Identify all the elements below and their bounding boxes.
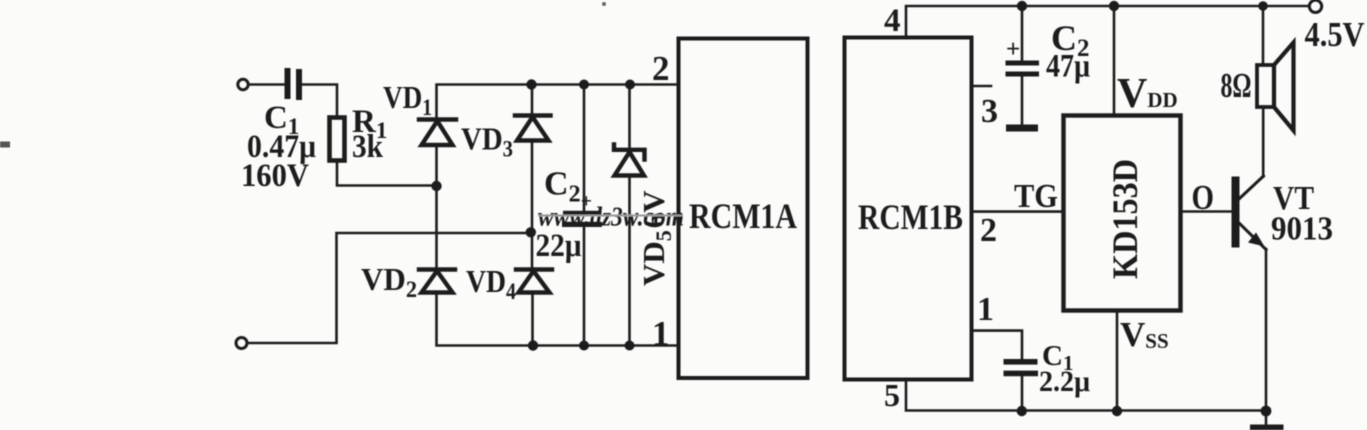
svg-text:3k: 3k (352, 129, 384, 165)
svg-text:160V: 160V (241, 158, 309, 194)
svg-text:VD4: VD4 (466, 263, 516, 304)
svg-text:KD153D: KD153D (1105, 159, 1145, 279)
svg-text:VD1: VD1 (383, 79, 432, 120)
svg-text:VD3: VD3 (461, 121, 513, 162)
svg-text:8Ω: 8Ω (1221, 66, 1252, 105)
svg-text:2.2μ: 2.2μ (1039, 365, 1090, 398)
svg-text:1: 1 (977, 291, 994, 328)
svg-text:47μ: 47μ (1046, 49, 1090, 85)
svg-text:VD2: VD2 (361, 261, 417, 302)
svg-text:RCM1B: RCM1B (858, 197, 963, 237)
svg-text:1: 1 (652, 314, 670, 353)
svg-text:VSS: VSS (1120, 315, 1169, 354)
svg-text:VDD: VDD (1117, 71, 1178, 117)
svg-text:4.5V: 4.5V (1305, 15, 1365, 54)
svg-text:2: 2 (652, 49, 670, 88)
svg-text:3: 3 (981, 93, 998, 130)
svg-text:RCM1A: RCM1A (689, 196, 797, 236)
svg-text:4: 4 (884, 3, 901, 39)
svg-text:22μ: 22μ (536, 228, 582, 264)
svg-text:2: 2 (980, 212, 997, 249)
svg-text:O: O (1192, 178, 1215, 217)
svg-text:TG: TG (1014, 178, 1058, 215)
svg-text:5: 5 (884, 377, 900, 413)
svg-text:+: + (1006, 36, 1020, 63)
svg-text:9013: 9013 (1271, 211, 1333, 248)
